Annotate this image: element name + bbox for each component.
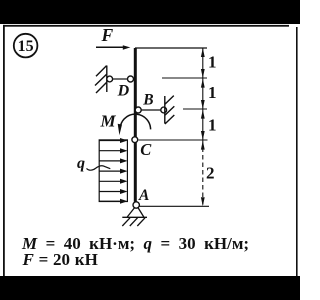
link rod B: [141, 109, 161, 111]
link rod D: [113, 78, 128, 80]
moment M arc: [118, 114, 151, 135]
force F arrow: [96, 45, 130, 49]
svg-text:D: D: [117, 83, 130, 100]
svg-text:1: 1: [208, 83, 217, 102]
support D pin circle (wall side): [107, 76, 113, 82]
card frame left line: [3, 25, 5, 276]
svg-text:F = 20 кН: F = 20 кН: [22, 250, 98, 269]
svg-text:1: 1: [208, 116, 217, 135]
pin circle on beam at B: [135, 107, 141, 113]
card frame right line: [296, 27, 298, 276]
distributed load arrows: [99, 138, 127, 204]
top horizontal line to dimension line: [135, 47, 207, 49]
pin support A triangle legs: [122, 208, 147, 218]
dimension arrowheads: [201, 48, 205, 206]
svg-text:q: q: [77, 155, 85, 172]
svg-text:C: C: [140, 140, 152, 159]
svg-text:B: B: [142, 91, 153, 108]
svg-text:A: A: [138, 187, 149, 204]
support D wall hatching: [95, 66, 107, 94]
support B wall hatching: [165, 96, 175, 124]
svg-text:15: 15: [18, 38, 34, 55]
q leader squiggle: [87, 166, 111, 170]
hinge circle at C: [132, 137, 138, 143]
dimension line vertical (dashed part C to A): [202, 140, 204, 206]
dimension line vertical (top solid part): [202, 48, 204, 140]
svg-text:F: F: [101, 25, 114, 45]
beam (vertical bar A to top): [134, 48, 137, 202]
svg-text:M: M: [100, 111, 117, 130]
pin support A circle: [133, 202, 139, 208]
dimension tick at D level: [162, 77, 207, 79]
dimension tick at B level: [183, 108, 207, 110]
svg-text:2: 2: [206, 163, 215, 182]
svg-text:1: 1: [208, 53, 217, 72]
roller pin circle at B: [161, 107, 167, 113]
bottom black band: [0, 276, 300, 300]
top black band: [0, 0, 300, 24]
card frame top line: [3, 25, 289, 27]
dimension tick at A level: [140, 205, 210, 207]
pin support A ground hatching: [122, 218, 145, 226]
problem number circle 15: [14, 34, 38, 58]
dimension tick at C level: [139, 139, 208, 141]
pin circle on beam at D: [128, 76, 134, 82]
distributed load q rectangle: [99, 140, 127, 202]
